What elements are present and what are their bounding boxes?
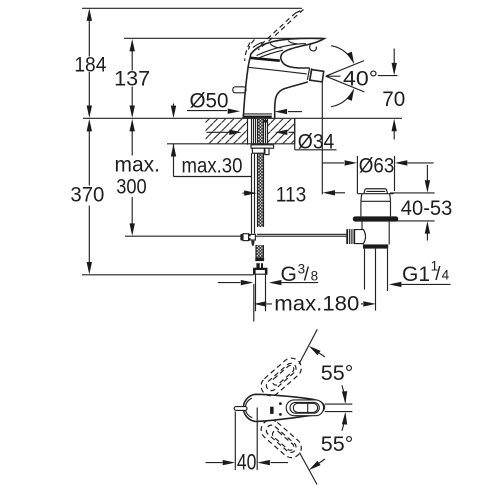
spout underside / body right edge bbox=[275, 82, 308, 118]
bottom view cartridge mark bbox=[270, 407, 274, 414]
reference line 370 bottom bbox=[82, 274, 254, 276]
connector tube bbox=[256, 274, 266, 311]
dashed raised handle upper edge bbox=[258, 10, 304, 50]
label G1 1/4 bbox=[402, 259, 450, 287]
hose collar bbox=[255, 257, 264, 261]
svg-text:8: 8 bbox=[311, 269, 319, 284]
max.30 bracket line bbox=[174, 144, 252, 177]
svg-text:55°: 55° bbox=[321, 433, 354, 456]
dimension 113 bbox=[243, 190, 346, 196]
bottom view lever outer bbox=[286, 400, 323, 416]
dashed raised handle lower edge bbox=[253, 13, 296, 52]
bottom view body outline bbox=[243, 394, 324, 421]
label G 3/8 bbox=[281, 262, 319, 287]
shank cap black bbox=[264, 120, 267, 123]
dimension Ø50 bbox=[187, 109, 302, 115]
svg-text:4: 4 bbox=[442, 268, 450, 283]
base flange line bbox=[244, 113, 273, 115]
extension line aerator axis bbox=[321, 83, 323, 195]
svg-text:/: / bbox=[435, 264, 441, 285]
dashed lever rotated down 55 bbox=[257, 416, 305, 462]
svg-text:137: 137 bbox=[114, 68, 150, 91]
aerator bbox=[310, 70, 324, 82]
svg-text:max.30: max.30 bbox=[182, 155, 243, 178]
threaded rod bbox=[258, 119, 264, 227]
dimension Ø63 bbox=[322, 156, 433, 194]
angle ray upper 55 bbox=[299, 329, 317, 364]
bottom view lever knob bbox=[293, 403, 317, 412]
shank sleeve lines in deck hole bbox=[248, 118, 268, 148]
handle inner crease 1 bbox=[257, 44, 307, 56]
dimension 137 bbox=[130, 39, 135, 118]
dimension 184 bbox=[87, 8, 92, 118]
drain lower body bbox=[362, 222, 389, 245]
drain upper body bbox=[361, 194, 391, 217]
dimension 370 bbox=[87, 119, 92, 275]
dashed handle tip bbox=[296, 10, 303, 13]
handle inner crease 2 bbox=[260, 50, 284, 57]
svg-text:max.180: max.180 bbox=[274, 292, 359, 315]
dimension 40-53 bbox=[390, 165, 435, 241]
svg-text:70: 70 bbox=[382, 88, 405, 111]
deck hatching left bbox=[206, 119, 248, 143]
svg-text:Ø50: Ø50 bbox=[190, 90, 229, 113]
svg-text:/: / bbox=[304, 265, 310, 286]
handle inner crease 3 bbox=[253, 42, 263, 47]
svg-text:184: 184 bbox=[74, 53, 106, 76]
drain ribbed adjuster bbox=[346, 229, 354, 244]
svg-text:Ø63: Ø63 bbox=[359, 154, 395, 177]
angle dimension 40 deg bbox=[326, 46, 365, 107]
svg-text:40-53: 40-53 bbox=[401, 197, 453, 220]
svg-text:G1: G1 bbox=[402, 263, 430, 286]
drain tailpipe bbox=[365, 249, 388, 311]
svg-text:max.: max. bbox=[115, 154, 161, 177]
bottom view dot upper bbox=[279, 402, 282, 405]
hose nipple black bbox=[256, 263, 263, 268]
reference line deck bottom bbox=[167, 143, 295, 145]
dimension Ø34 bbox=[207, 118, 337, 150]
angle arc upper 55 bbox=[307, 344, 348, 404]
deck hatching right bbox=[267, 119, 294, 143]
faucet body left edge bbox=[243, 58, 250, 118]
angle ray lower 55 bbox=[300, 453, 318, 485]
svg-text:40: 40 bbox=[237, 450, 257, 475]
braided hose end bbox=[256, 245, 263, 257]
dashed lever rotated up 55 bbox=[257, 354, 305, 400]
hose tee fitting bbox=[240, 234, 255, 241]
handle base thick joint bbox=[250, 58, 280, 61]
svg-text:G: G bbox=[281, 263, 297, 286]
mounting washer bbox=[251, 145, 274, 148]
reference line max.300 bottom / drain pull rod bbox=[125, 235, 346, 237]
pop-up rod knob on body bbox=[233, 87, 246, 93]
svg-text:55°: 55° bbox=[321, 362, 354, 385]
drain body shoulder bbox=[358, 193, 394, 195]
handle inner crease 5 bbox=[288, 41, 298, 44]
dimension max.180 bbox=[254, 284, 376, 322]
dimension 70 bbox=[378, 49, 398, 140]
base bottom thick band bbox=[244, 116, 272, 118]
faucet handle lever bbox=[250, 38, 324, 68]
reference line top (raised handle height) bbox=[82, 7, 302, 9]
handle tip squiggle bbox=[310, 44, 317, 51]
spout crease line bbox=[249, 67, 307, 74]
dimension 40 bottom bbox=[206, 408, 289, 471]
bottom view knob divider bbox=[307, 403, 309, 412]
washer tab bbox=[265, 148, 269, 154]
bottom view inner left arc bbox=[245, 398, 252, 417]
angle ref ticks bbox=[325, 404, 353, 412]
drain side spigot bbox=[355, 230, 366, 244]
drain pop-up knob bbox=[364, 189, 388, 194]
dimension max.300 bbox=[130, 119, 135, 236]
angle arc lower 55 bbox=[307, 412, 348, 473]
dashed swing arc 2 bbox=[248, 40, 254, 50]
bottom view pull rod stub bbox=[234, 407, 247, 411]
svg-text:370: 370 bbox=[70, 184, 104, 207]
G3/8 connector nut bbox=[254, 268, 267, 274]
dimension G3/8 bbox=[218, 280, 318, 285]
svg-text:300: 300 bbox=[116, 175, 147, 198]
bottom view dot lower bbox=[279, 413, 282, 416]
reference line mounting deck top bbox=[83, 117, 402, 119]
reference line handle tip height bbox=[124, 37, 323, 39]
handle inner crease 4 bbox=[270, 44, 282, 48]
svg-text:Ø34: Ø34 bbox=[298, 130, 335, 153]
dimension G1 1/4 bbox=[389, 282, 451, 287]
spout-aerator joint bbox=[307, 68, 311, 81]
drain pull rod bbox=[257, 233, 346, 235]
drain body bottom band bbox=[363, 244, 388, 248]
dimension max.30 bbox=[171, 104, 176, 157]
drain flange bbox=[353, 216, 399, 221]
dashed swing arc 1 bbox=[245, 43, 250, 62]
hose lower tip bbox=[251, 241, 254, 246]
hose nipple slit bbox=[260, 263, 261, 268]
svg-text:113: 113 bbox=[276, 183, 307, 206]
supply hose bbox=[252, 153, 255, 233]
svg-text:40°: 40° bbox=[343, 67, 378, 90]
bottom view lever inner ring bbox=[290, 402, 319, 413]
deck right edge bbox=[294, 118, 296, 144]
mounting nut bbox=[252, 148, 264, 153]
